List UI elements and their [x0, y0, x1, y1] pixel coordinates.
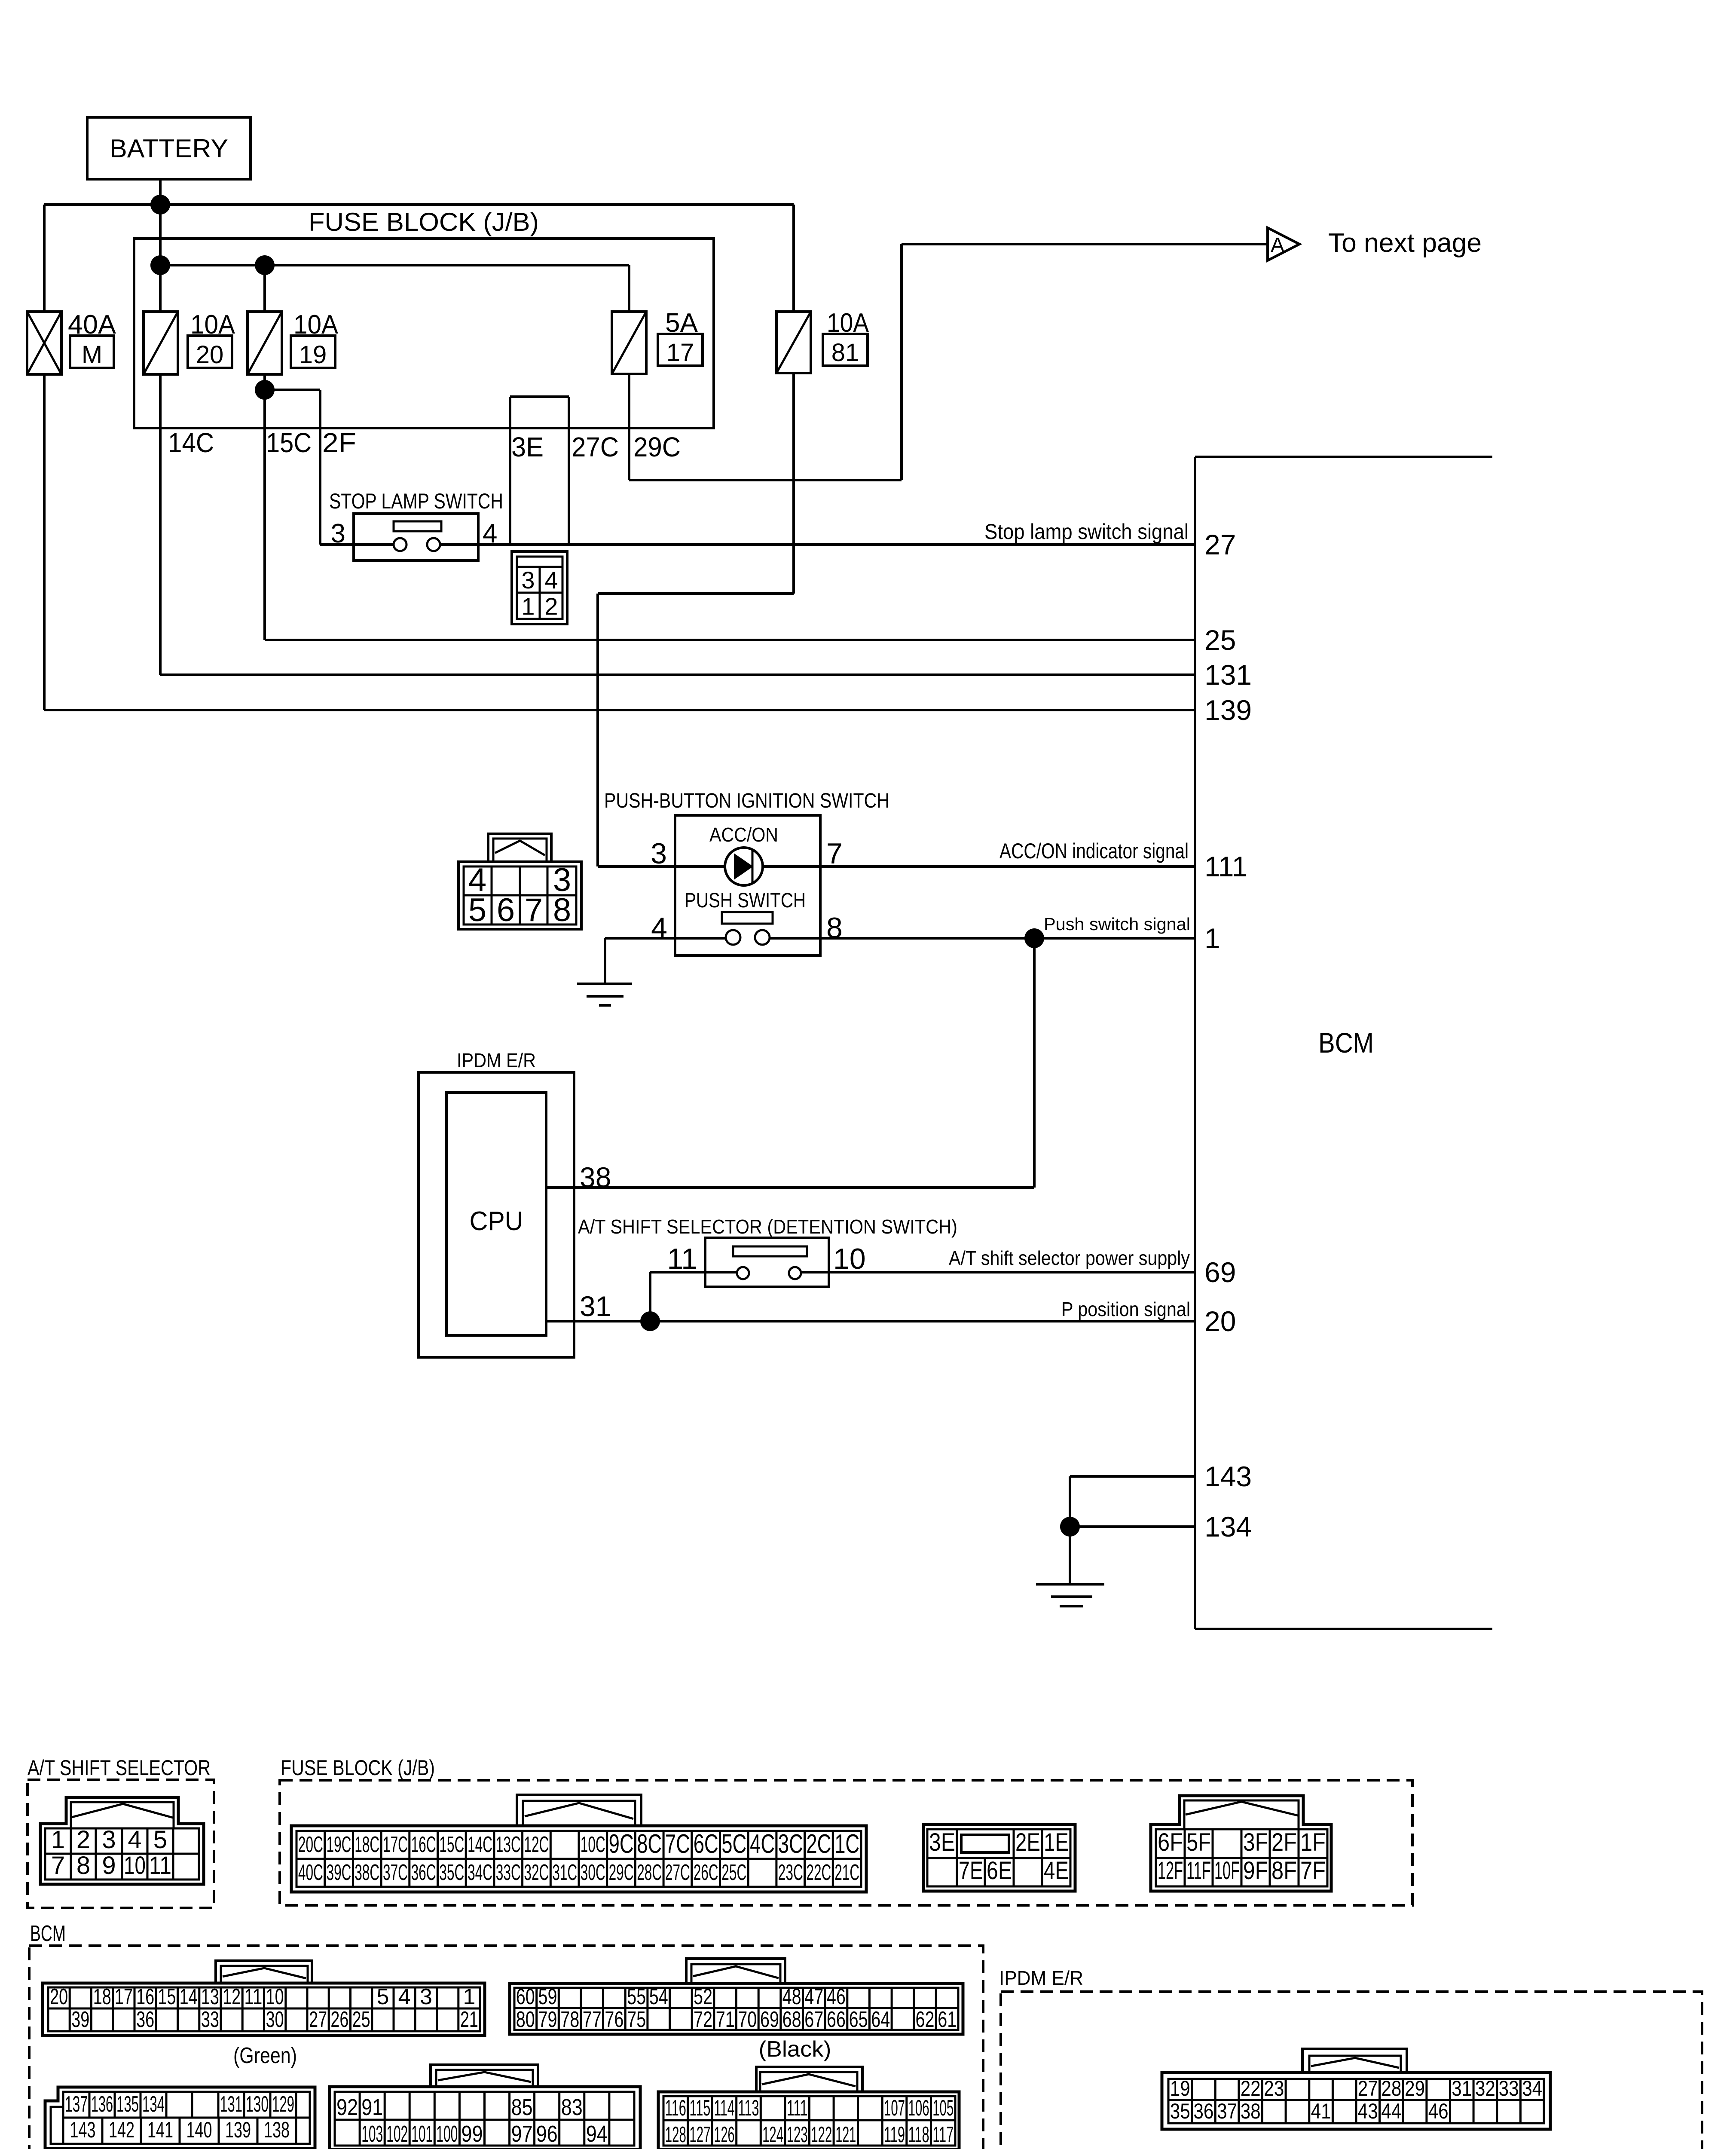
- svg-text:44: 44: [1381, 2099, 1401, 2123]
- wire pin11: [650, 1271, 737, 1273]
- wire pin143: [1070, 1475, 1195, 1478]
- svg-text:121: 121: [835, 2122, 856, 2147]
- svg-text:16C: 16C: [411, 1832, 436, 1857]
- svg-text:21C: 21C: [834, 1860, 859, 1885]
- svg-text:11F: 11F: [1186, 1857, 1211, 1885]
- svg-text:79: 79: [538, 2007, 557, 2032]
- svg-text:9F: 9F: [1243, 1857, 1268, 1885]
- svg-text:143: 143: [70, 2118, 96, 2143]
- svg-text:A/T SHIFT SELECTOR: A/T SHIFT SELECTOR: [28, 1756, 211, 1780]
- svg-text:10F: 10F: [1214, 1857, 1240, 1885]
- svg-text:25: 25: [352, 2007, 370, 2032]
- svg-text:64: 64: [871, 2007, 890, 2032]
- svg-text:97: 97: [511, 2121, 533, 2147]
- battery: [87, 117, 251, 179]
- svg-text:92: 92: [336, 2094, 358, 2120]
- wire stem fuse 19: [263, 265, 266, 312]
- svg-text:29C: 29C: [633, 432, 681, 462]
- svg-text:129: 129: [272, 2092, 294, 2117]
- svg-text:8C: 8C: [637, 1829, 662, 1859]
- J/B connector 1E-7E: [923, 1825, 1075, 1891]
- svg-text:15C: 15C: [439, 1832, 464, 1857]
- node bus junction 2: [255, 255, 275, 275]
- svg-text:1E: 1E: [1044, 1828, 1069, 1856]
- svg-text:8: 8: [553, 892, 571, 928]
- svg-text:(Green): (Green): [233, 2043, 297, 2068]
- svg-text:72: 72: [694, 2007, 712, 2032]
- svg-text:7: 7: [826, 837, 843, 870]
- svg-text:ACC/ON indicator signal: ACC/ON indicator signal: [999, 839, 1189, 863]
- svg-text:11: 11: [244, 1984, 262, 2009]
- svg-text:46: 46: [1428, 2099, 1449, 2123]
- svg-text:29C: 29C: [609, 1860, 634, 1885]
- svg-text:3E: 3E: [929, 1828, 955, 1856]
- svg-text:6: 6: [497, 892, 515, 928]
- svg-text:68: 68: [782, 2007, 801, 2032]
- svg-text:59: 59: [538, 1984, 557, 2009]
- svg-text:Stop lamp switch signal: Stop lamp switch signal: [984, 520, 1189, 544]
- BCM connector green: [216, 1961, 312, 1983]
- svg-text:11: 11: [149, 1852, 171, 1880]
- wire CPU pin31 to BCM pin20: [546, 1320, 1195, 1322]
- svg-text:5: 5: [153, 1826, 167, 1854]
- fuse 10A 81: [792, 205, 795, 312]
- svg-text:33: 33: [1499, 2076, 1519, 2100]
- svg-text:FUSE BLOCK (J/B): FUSE BLOCK (J/B): [309, 208, 539, 236]
- connector face ignition switch 8pin: [488, 834, 551, 862]
- svg-text:111: 111: [787, 2096, 808, 2121]
- svg-text:41: 41: [1311, 2099, 1331, 2123]
- svg-text:10: 10: [124, 1852, 146, 1880]
- svg-text:69: 69: [1204, 1256, 1236, 1288]
- svg-text:38: 38: [1241, 2099, 1261, 2123]
- svg-text:FUSE BLOCK (J/B): FUSE BLOCK (J/B): [281, 1756, 435, 1780]
- svg-text:127: 127: [689, 2122, 710, 2147]
- svg-text:2F: 2F: [1271, 1828, 1297, 1856]
- svg-text:30C: 30C: [581, 1860, 605, 1885]
- svg-text:134: 134: [142, 2092, 165, 2117]
- wire pin8 to BCM pin1: [770, 937, 1195, 940]
- svg-text:114: 114: [714, 2096, 735, 2121]
- svg-text:66: 66: [827, 2007, 846, 2032]
- J/B connector 20C-40C: [517, 1795, 641, 1826]
- svg-text:27: 27: [309, 2007, 327, 2032]
- fusible link 40A M: [27, 312, 61, 374]
- svg-text:139: 139: [1204, 694, 1252, 726]
- svg-text:17: 17: [115, 1984, 133, 2009]
- svg-text:3: 3: [102, 1826, 116, 1854]
- svg-text:STOP LAMP SWITCH: STOP LAMP SWITCH: [329, 489, 503, 513]
- svg-text:105: 105: [932, 2096, 954, 2121]
- BCM connector 129-143: [45, 2087, 315, 2149]
- svg-text:37: 37: [1217, 2099, 1237, 2123]
- svg-text:123: 123: [787, 2122, 808, 2147]
- svg-text:34C: 34C: [468, 1860, 492, 1885]
- svg-text:61: 61: [938, 2007, 957, 2032]
- wire pin134: [1070, 1525, 1195, 1528]
- svg-text:23: 23: [1264, 2076, 1284, 2100]
- svg-text:CPU: CPU: [470, 1206, 523, 1236]
- wire battery stem: [159, 179, 162, 312]
- svg-text:40C: 40C: [298, 1860, 323, 1885]
- svg-text:17: 17: [666, 339, 694, 367]
- BCM connector gray 83-103: [431, 2065, 538, 2087]
- svg-text:142: 142: [109, 2118, 134, 2143]
- BCM connector black 105-128: [756, 2067, 862, 2092]
- wire to fusible link M: [43, 205, 46, 312]
- wire 2F branch: [265, 389, 320, 391]
- ground BCM: [1036, 1583, 1104, 1586]
- svg-text:36C: 36C: [411, 1860, 436, 1885]
- wire pin3 acc: [598, 865, 725, 868]
- svg-text:128: 128: [665, 2122, 686, 2147]
- svg-text:1C: 1C: [834, 1829, 859, 1859]
- svg-text:119: 119: [884, 2122, 905, 2147]
- svg-text:28C: 28C: [637, 1860, 662, 1885]
- svg-text:138: 138: [264, 2118, 290, 2143]
- svg-text:96: 96: [536, 2121, 558, 2147]
- svg-text:10: 10: [266, 1984, 284, 2009]
- wire 27C to next page: [628, 374, 630, 480]
- svg-text:91: 91: [361, 2094, 383, 2120]
- wire battery bus: [44, 203, 794, 206]
- svg-text:37C: 37C: [383, 1860, 408, 1885]
- svg-text:2F: 2F: [322, 427, 356, 458]
- svg-text:19: 19: [1170, 2076, 1190, 2100]
- svg-text:4E: 4E: [1044, 1857, 1069, 1885]
- node ground junction: [1060, 1517, 1080, 1537]
- svg-text:7C: 7C: [665, 1829, 690, 1859]
- J/B 3E pass-through channel: [509, 397, 511, 545]
- svg-text:124: 124: [762, 2122, 783, 2147]
- svg-text:5: 5: [376, 1984, 389, 2009]
- svg-text:107: 107: [884, 2096, 905, 2121]
- svg-text:14C: 14C: [168, 427, 214, 458]
- svg-text:29: 29: [1405, 2076, 1425, 2100]
- svg-text:83: 83: [561, 2094, 583, 2120]
- svg-text:IPDM E/R: IPDM E/R: [999, 1967, 1083, 1989]
- svg-text:27C: 27C: [665, 1860, 690, 1885]
- svg-text:17C: 17C: [383, 1832, 408, 1857]
- svg-text:39: 39: [71, 2007, 89, 2032]
- svg-text:3: 3: [521, 566, 535, 594]
- svg-text:65: 65: [849, 2007, 868, 2032]
- svg-text:39C: 39C: [327, 1860, 351, 1885]
- svg-text:18: 18: [93, 1984, 111, 2009]
- svg-text:3E: 3E: [511, 432, 544, 462]
- wire pin4 to BCM pin27: [440, 543, 1195, 546]
- svg-text:111: 111: [1204, 851, 1247, 882]
- svg-text:5C: 5C: [721, 1829, 746, 1859]
- svg-text:54: 54: [649, 1984, 668, 2009]
- wire pin4 to ground: [605, 937, 726, 940]
- wire 29C to ignition switch: [792, 373, 795, 594]
- wire inner bus: [160, 264, 629, 266]
- svg-text:102: 102: [386, 2121, 408, 2147]
- svg-text:81: 81: [831, 339, 859, 367]
- svg-text:3: 3: [420, 1984, 432, 2009]
- svg-text:137: 137: [65, 2092, 88, 2117]
- svg-text:5: 5: [468, 892, 486, 928]
- fuse 10A 20: [144, 312, 178, 374]
- svg-text:14: 14: [180, 1984, 198, 2009]
- svg-text:77: 77: [583, 2007, 602, 2032]
- svg-text:2: 2: [76, 1826, 90, 1854]
- svg-text:13: 13: [201, 1984, 219, 2009]
- J/B connector 1F-12F: [1151, 1796, 1331, 1891]
- svg-text:103: 103: [361, 2121, 383, 2147]
- svg-text:134: 134: [1204, 1511, 1252, 1543]
- node push switch branch: [1024, 928, 1044, 948]
- svg-text:10C: 10C: [581, 1832, 605, 1857]
- svg-text:1: 1: [463, 1984, 475, 2009]
- svg-text:PUSH-BUTTON IGNITION SWITCH: PUSH-BUTTON IGNITION SWITCH: [604, 790, 889, 812]
- svg-text:75: 75: [627, 2007, 646, 2032]
- BCM outline: [1194, 457, 1196, 1629]
- svg-text:Push switch signal: Push switch signal: [1044, 914, 1190, 934]
- svg-text:10: 10: [833, 1243, 866, 1275]
- svg-text:4: 4: [128, 1826, 141, 1854]
- svg-text:19: 19: [299, 341, 327, 369]
- svg-text:19C: 19C: [327, 1832, 351, 1857]
- svg-text:ACC/ON: ACC/ON: [709, 823, 778, 846]
- svg-text:52: 52: [694, 1984, 712, 2009]
- wire pin10 to BCM pin69: [801, 1271, 1195, 1273]
- svg-text:131: 131: [1204, 659, 1252, 691]
- svg-text:106: 106: [908, 2096, 929, 2121]
- svg-text:27: 27: [1358, 2076, 1378, 2100]
- svg-text:118: 118: [908, 2122, 929, 2147]
- svg-text:(Black): (Black): [759, 2037, 831, 2062]
- svg-text:38C: 38C: [355, 1860, 379, 1885]
- svg-text:12F: 12F: [1158, 1857, 1183, 1885]
- svg-text:7: 7: [525, 892, 543, 928]
- wire 15C to pin25: [263, 374, 266, 640]
- svg-text:20: 20: [50, 1984, 68, 2009]
- svg-text:126: 126: [714, 2122, 735, 2147]
- svg-text:22: 22: [1241, 2076, 1261, 2100]
- svg-text:33C: 33C: [496, 1860, 521, 1885]
- svg-text:2C: 2C: [806, 1829, 831, 1859]
- svg-text:141: 141: [147, 2118, 173, 2143]
- svg-text:94: 94: [586, 2121, 608, 2147]
- fuse block (J/B) outline: [134, 239, 714, 428]
- svg-text:48: 48: [782, 1984, 801, 2009]
- fuse 5A 17: [612, 312, 646, 374]
- svg-text:23C: 23C: [778, 1860, 803, 1885]
- svg-text:6F: 6F: [1158, 1828, 1183, 1856]
- svg-text:26C: 26C: [694, 1860, 718, 1885]
- svg-text:116: 116: [665, 2096, 686, 2121]
- node P position branch: [640, 1311, 660, 1331]
- ACC/ON indicator LED: [725, 848, 763, 885]
- wire 14C to pin131: [159, 374, 162, 675]
- svg-text:46: 46: [827, 1984, 846, 2009]
- svg-text:3F: 3F: [1243, 1828, 1268, 1856]
- svg-text:5F: 5F: [1186, 1828, 1211, 1856]
- svg-text:1F: 1F: [1300, 1828, 1326, 1856]
- svg-text:22C: 22C: [806, 1860, 831, 1885]
- svg-text:6E: 6E: [987, 1857, 1012, 1885]
- svg-text:117: 117: [932, 2122, 954, 2147]
- svg-text:113: 113: [738, 2096, 759, 2121]
- svg-text:21: 21: [460, 2007, 478, 2032]
- svg-text:135: 135: [116, 2092, 139, 2117]
- svg-text:32C: 32C: [524, 1860, 549, 1885]
- svg-text:3: 3: [651, 837, 667, 870]
- svg-text:BCM: BCM: [30, 1921, 66, 1946]
- svg-text:25C: 25C: [721, 1860, 746, 1885]
- svg-text:136: 136: [91, 2092, 113, 2117]
- wire pin7 to BCM pin111: [763, 865, 1195, 868]
- svg-text:16: 16: [136, 1984, 154, 2009]
- svg-text:7E: 7E: [959, 1857, 983, 1885]
- svg-text:9: 9: [102, 1852, 116, 1880]
- svg-text:3: 3: [331, 519, 345, 548]
- svg-text:8: 8: [826, 912, 843, 944]
- svg-text:60: 60: [516, 1984, 535, 2009]
- svg-text:4: 4: [398, 1984, 411, 2009]
- BCM connector black 60-80: [686, 1959, 785, 1984]
- svg-text:32: 32: [1475, 2076, 1495, 2100]
- svg-text:A/T SHIFT SELECTOR (DETENTION: A/T SHIFT SELECTOR (DETENTION SWITCH): [578, 1215, 957, 1238]
- svg-text:85: 85: [511, 2094, 533, 2120]
- svg-text:14C: 14C: [468, 1832, 492, 1857]
- svg-text:To next page: To next page: [1328, 228, 1482, 258]
- svg-text:140: 140: [186, 2118, 212, 2143]
- svg-text:27: 27: [1204, 529, 1236, 560]
- svg-text:131: 131: [220, 2092, 242, 2117]
- fuse 10A 19: [248, 312, 282, 374]
- connector arrow A to next page: [1268, 228, 1299, 260]
- svg-text:9C: 9C: [609, 1829, 634, 1859]
- svg-text:71: 71: [716, 2007, 735, 2032]
- svg-text:PUSH SWITCH: PUSH SWITCH: [685, 889, 806, 912]
- svg-text:33: 33: [201, 2007, 219, 2032]
- svg-text:2E: 2E: [1015, 1828, 1040, 1856]
- svg-text:101: 101: [411, 2121, 433, 2147]
- svg-text:28: 28: [1381, 2076, 1401, 2100]
- svg-text:25: 25: [1204, 624, 1236, 656]
- svg-text:26: 26: [330, 2007, 348, 2032]
- svg-text:BATTERY: BATTERY: [110, 134, 228, 163]
- svg-text:35: 35: [1170, 2099, 1190, 2123]
- svg-text:31: 31: [580, 1290, 611, 1322]
- svg-text:30: 30: [266, 2007, 284, 2032]
- svg-text:4C: 4C: [750, 1829, 775, 1859]
- svg-text:31C: 31C: [552, 1860, 577, 1885]
- svg-text:31: 31: [1452, 2076, 1472, 2100]
- svg-text:4: 4: [483, 519, 497, 548]
- svg-text:139: 139: [225, 2118, 251, 2143]
- svg-text:34: 34: [1522, 2076, 1542, 2100]
- svg-text:100: 100: [436, 2121, 458, 2147]
- svg-text:55: 55: [627, 1984, 646, 2009]
- svg-text:35C: 35C: [439, 1860, 464, 1885]
- svg-text:62: 62: [916, 2007, 935, 2032]
- svg-text:38: 38: [580, 1161, 611, 1193]
- node 2F branch: [255, 380, 275, 400]
- svg-text:115: 115: [689, 2096, 710, 2121]
- svg-text:20C: 20C: [298, 1832, 323, 1857]
- svg-text:1: 1: [521, 593, 535, 620]
- wire 40A to pin139: [43, 374, 46, 710]
- svg-text:11: 11: [667, 1243, 697, 1275]
- wire stem fuse 17: [628, 265, 630, 312]
- node bus junction 1: [150, 255, 170, 275]
- svg-text:130: 130: [246, 2092, 269, 2117]
- svg-text:4: 4: [651, 912, 667, 944]
- svg-text:6C: 6C: [694, 1829, 718, 1859]
- svg-text:12: 12: [223, 1984, 241, 2009]
- svg-text:12C: 12C: [524, 1832, 549, 1857]
- svg-text:P position signal: P position signal: [1061, 1298, 1190, 1320]
- svg-text:67: 67: [804, 2007, 823, 2032]
- svg-text:BCM: BCM: [1318, 1027, 1374, 1059]
- connector face 3 4 / 1 2: [512, 551, 567, 624]
- svg-text:IPDM E/R: IPDM E/R: [457, 1049, 536, 1071]
- svg-text:13C: 13C: [496, 1832, 521, 1857]
- svg-text:76: 76: [605, 2007, 623, 2032]
- svg-text:18C: 18C: [355, 1832, 379, 1857]
- svg-text:80: 80: [516, 2007, 535, 2032]
- svg-text:36: 36: [136, 2007, 154, 2032]
- svg-text:7F: 7F: [1300, 1857, 1326, 1885]
- svg-text:70: 70: [738, 2007, 757, 2032]
- svg-text:43: 43: [1358, 2099, 1378, 2123]
- svg-text:A/T shift selector power suppl: A/T shift selector power supply: [949, 1247, 1190, 1269]
- CPU: [446, 1093, 546, 1335]
- svg-text:47: 47: [804, 1984, 823, 2009]
- node battery junction: [150, 195, 170, 214]
- wire CPU pin38: [546, 1186, 1034, 1189]
- svg-text:A: A: [1271, 234, 1284, 257]
- svg-text:122: 122: [811, 2122, 832, 2147]
- svg-text:7: 7: [51, 1852, 65, 1880]
- svg-text:99: 99: [462, 2121, 483, 2147]
- ground push switch: [604, 938, 606, 984]
- svg-text:3C: 3C: [778, 1829, 803, 1859]
- wire pin3 stop lamp: [320, 543, 394, 546]
- svg-text:1: 1: [51, 1826, 65, 1854]
- svg-text:M: M: [82, 341, 102, 369]
- svg-text:15: 15: [158, 1984, 176, 2009]
- svg-text:69: 69: [760, 2007, 779, 2032]
- wire branch to CPU38: [1033, 938, 1036, 1188]
- svg-text:27C: 27C: [572, 432, 619, 462]
- svg-text:8F: 8F: [1271, 1857, 1297, 1885]
- svg-text:20: 20: [1204, 1305, 1236, 1337]
- svg-text:20: 20: [196, 341, 224, 369]
- svg-text:143: 143: [1204, 1460, 1252, 1492]
- svg-text:2: 2: [544, 593, 558, 620]
- svg-text:78: 78: [560, 2007, 579, 2032]
- svg-text:36: 36: [1193, 2099, 1213, 2123]
- svg-text:1: 1: [1204, 922, 1220, 954]
- svg-text:8: 8: [76, 1852, 90, 1880]
- svg-text:15C: 15C: [266, 427, 312, 458]
- svg-text:4: 4: [544, 566, 558, 594]
